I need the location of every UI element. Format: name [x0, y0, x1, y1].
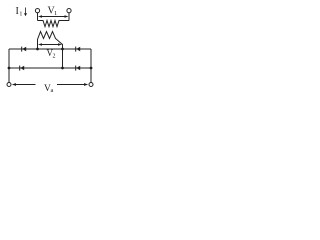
svg-text:1: 1	[54, 10, 57, 17]
svg-text:a: a	[51, 87, 54, 94]
svg-text:1: 1	[19, 11, 22, 18]
svg-text:2: 2	[53, 54, 56, 60]
